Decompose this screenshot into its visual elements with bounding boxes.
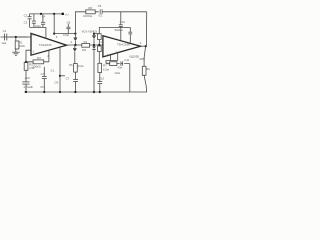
capacitor C10b — [97, 72, 102, 92]
svg-text:43н: 43н — [117, 66, 122, 70]
svg-text:R5: R5 — [69, 63, 73, 67]
svg-text:1: 1 — [100, 40, 102, 44]
svg-text:C5: C5 — [98, 4, 102, 8]
node branch rail — [59, 91, 61, 93]
capacitor C3 — [32, 14, 36, 28]
wire R8 row — [106, 63, 130, 65]
diode VD1 — [74, 38, 78, 45]
node output1 — [74, 44, 76, 46]
supply terminal +Un — [62, 13, 64, 15]
wire right edge — [145, 12, 147, 46]
wire R1 lead — [15, 37, 17, 41]
resistor R5 — [74, 64, 78, 73]
svg-text:0,1: 0,1 — [99, 13, 103, 17]
svg-text:0,5м: 0,5м — [63, 33, 69, 37]
node VD4 rail — [93, 91, 95, 93]
resistor R1 — [15, 41, 19, 49]
wire divider mid — [98, 40, 100, 47]
wire feedback top — [94, 33, 99, 35]
wire diode line 2 — [93, 34, 95, 36]
svg-text:C11: C11 — [124, 58, 129, 62]
resistor R3 — [33, 60, 44, 64]
node R3 tap — [25, 61, 27, 63]
node C6 rail — [25, 91, 27, 93]
node R7 rail — [99, 91, 101, 93]
diode VD3 — [92, 36, 96, 45]
svg-text:100Ом: 100Ом — [83, 14, 92, 18]
wire top rail right — [75, 12, 146, 14]
wire R3 up — [48, 50, 50, 62]
resistor R8 — [110, 62, 117, 66]
wire output1 riser — [74, 14, 76, 38]
resistor divider R10 — [98, 46, 102, 52]
capacitor C6 — [22, 70, 29, 92]
svg-text:1Ом: 1Ом — [114, 71, 120, 75]
svg-text:100: 100 — [82, 48, 87, 52]
svg-text:+C6: +C6 — [24, 76, 30, 80]
svg-text:C3: C3 — [24, 21, 28, 25]
svg-text:4,7мкФ: 4,7мкФ — [23, 85, 33, 89]
capacitor C2 — [28, 17, 32, 28]
svg-text:R8: R8 — [107, 62, 111, 66]
node divider — [98, 44, 100, 46]
op-amp DA2 TDA2030 — [103, 36, 141, 57]
svg-text:100к: 100к — [19, 44, 26, 48]
svg-text:C9: C9 — [93, 30, 97, 34]
svg-text:1мк: 1мк — [1, 41, 7, 45]
wire right edge lower — [24, 75, 146, 92]
svg-text:100н: 100н — [35, 24, 41, 28]
wire R8 row top — [106, 61, 118, 64]
svg-text:R6: R6 — [88, 6, 92, 10]
wire DA2 inv pin — [110, 55, 112, 61]
capacitor C1 — [5, 34, 7, 41]
ground — [12, 52, 19, 55]
capacitor C5 — [99, 9, 102, 14]
diode VD2 — [73, 45, 77, 64]
svg-text:5: 5 — [56, 35, 58, 39]
node input junction — [15, 36, 17, 38]
wire inv input 1 — [26, 50, 31, 62]
svg-text:100к/5: 100к/5 — [32, 65, 41, 69]
capacitor C8 — [66, 24, 70, 34]
svg-text:C7: C7 — [66, 76, 70, 80]
wire C11 down — [129, 64, 131, 92]
svg-text:C2: C2 — [24, 13, 28, 17]
resistor R4 — [82, 44, 90, 48]
node R5 rail — [74, 91, 76, 93]
svg-text:R4: R4 — [84, 40, 88, 44]
svg-text:C4: C4 — [41, 72, 45, 76]
svg-text:4: 4 — [140, 41, 142, 45]
svg-text:1Ом: 1Ом — [78, 64, 84, 68]
resistor R2 — [24, 62, 28, 70]
capacitor C11 — [120, 61, 125, 65]
svg-text:R3: R3 — [37, 56, 41, 60]
wire pin5 across — [54, 33, 75, 35]
resistor R7 — [98, 63, 102, 72]
svg-text:+U: +U — [65, 12, 69, 16]
svg-text:0,1: 0,1 — [51, 68, 55, 72]
svg-text:C1: C1 — [3, 29, 7, 33]
svg-text:ВА1: ВА1 — [147, 67, 151, 71]
svg-text:1Ом: 1Ом — [103, 67, 109, 71]
node C4 rail — [43, 91, 45, 93]
node rail A — [40, 13, 42, 15]
svg-text:47н: 47н — [40, 85, 45, 89]
node pin5 — [53, 33, 55, 35]
svg-text:10Вт: 10Вт — [139, 57, 146, 61]
svg-text:С4: С4 — [42, 14, 46, 18]
wire branch stub — [60, 75, 65, 77]
svg-text:C8: C8 — [67, 20, 71, 24]
wire R3 row — [26, 61, 49, 63]
svg-text:TDA2030: TDA2030 — [39, 43, 52, 47]
node branch — [59, 75, 61, 77]
svg-text:560мк: 560мк — [115, 28, 124, 32]
op-amp DA1 TDA2030 — [31, 33, 67, 55]
resistor divider R9 — [98, 34, 102, 40]
wire output1 to bridge — [67, 44, 103, 46]
wire DA2 pin stub — [117, 53, 119, 61]
wire pin5 supply — [53, 14, 55, 34]
node diode2 top — [93, 33, 95, 35]
wire divider down — [98, 52, 100, 64]
node rail B — [53, 13, 55, 15]
svg-text:C9: C9 — [54, 81, 58, 85]
diode VD4 — [92, 46, 96, 92]
svg-text:КД105Б: КД105Б — [129, 55, 139, 59]
loudspeaker BA1 — [142, 66, 146, 75]
capacitor C9 — [128, 27, 132, 42]
wire decoupling bottom — [30, 27, 46, 38]
wire branch C9b — [59, 47, 61, 92]
resistor R6 — [86, 10, 95, 14]
node output2 — [145, 45, 147, 47]
capacitor C7 — [73, 72, 78, 92]
wire input — [1, 36, 28, 38]
svg-text:4: 4 — [70, 40, 72, 44]
svg-text:TDA2030: TDA2030 — [117, 42, 130, 46]
node bridge mid — [93, 44, 95, 46]
svg-text:C10: C10 — [120, 20, 126, 24]
capacitor C10 — [119, 12, 123, 41]
wire R1 to ground — [15, 49, 17, 53]
wire output2 — [141, 45, 147, 47]
wire top rail left — [30, 14, 63, 17]
capacitor C4 — [42, 67, 47, 92]
svg-text:C10: C10 — [99, 77, 105, 81]
capacitor C4a — [41, 14, 45, 27]
node C8 wire — [74, 33, 76, 35]
